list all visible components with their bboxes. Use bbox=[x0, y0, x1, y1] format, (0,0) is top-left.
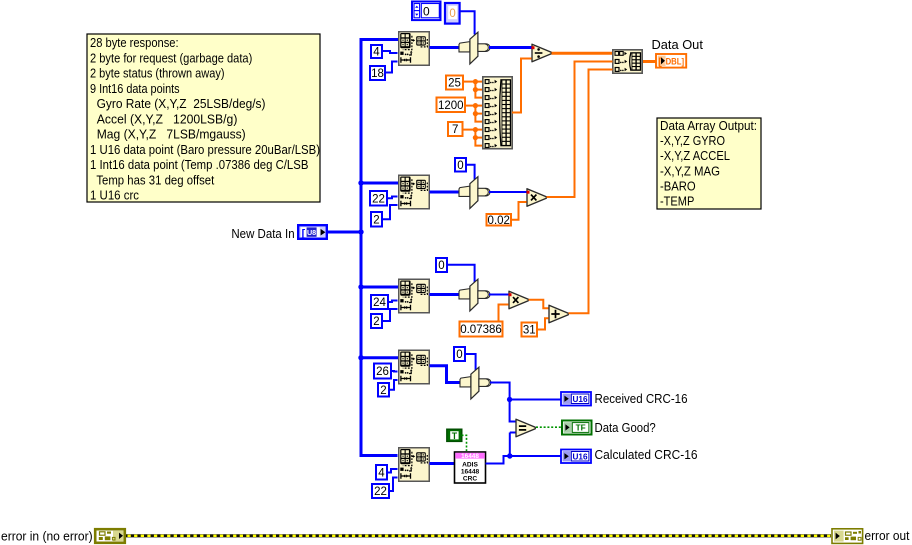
junction 7 a bbox=[473, 127, 478, 132]
junction received crc bbox=[507, 397, 512, 402]
wire add to buildarray3 row3 bbox=[569, 70, 613, 314]
svg-text:U16: U16 bbox=[572, 395, 587, 404]
comment box: Data Array Output list bbox=[657, 118, 761, 209]
svg-text:Calculated CRC-16: Calculated CRC-16 bbox=[595, 447, 698, 462]
wire const25 to branch bbox=[464, 81, 475, 83]
wire trunk to array subset 1 bbox=[360, 38, 399, 41]
constant 0 (row3 type) bbox=[436, 258, 447, 272]
wire calculated crc to equal bbox=[509, 433, 511, 457]
constant 2 (row4 length) bbox=[378, 383, 389, 397]
svg-text:0: 0 bbox=[449, 8, 455, 20]
svg-text:Data Good?: Data Good? bbox=[595, 420, 656, 435]
wire branch1200 row5 bbox=[475, 113, 482, 115]
junction 7 b bbox=[473, 135, 478, 140]
wire trunk to array subset 4 bbox=[361, 356, 398, 359]
constant 0 (row2 type) bbox=[455, 158, 466, 172]
svg-text:7: 7 bbox=[452, 124, 458, 136]
svg-text:T: T bbox=[452, 431, 458, 441]
control terminal error in cluster bbox=[95, 529, 125, 543]
svg-text:9 Int16 data points: 9 Int16 data points bbox=[90, 81, 180, 96]
svg-text:28 byte response:: 28 byte response: bbox=[90, 35, 179, 50]
control terminal New Data In [U8] bbox=[298, 225, 327, 239]
divide node (row1 scale) bbox=[532, 44, 552, 62]
wire typecast4 to equal top bbox=[490, 383, 516, 422]
wire const0.02 to multiply2 bbox=[512, 202, 527, 220]
wire terminal0 to typecast1 type input bbox=[461, 11, 475, 34]
svg-text:Received CRC-16: Received CRC-16 bbox=[595, 391, 688, 406]
wire branch1200 vertical bbox=[475, 106, 482, 122]
wire const22 to length input row5 bbox=[389, 478, 398, 492]
svg-text:CRC: CRC bbox=[463, 476, 478, 483]
svg-text:Accel (X,Y,Z 1200LSB/g): Accel (X,Y,Z 1200LSB/g) bbox=[90, 111, 237, 126]
wire multiply2 to buildarray3 row2 bbox=[547, 62, 613, 198]
svg-text:0: 0 bbox=[457, 160, 463, 172]
svg-text:2 byte status (thrown away): 2 byte status (thrown away) bbox=[90, 66, 225, 81]
constant 31 (temp offset) bbox=[522, 323, 538, 337]
wire typecast2 to multiply2 bbox=[489, 191, 527, 193]
constant 2 (row2 length) bbox=[371, 212, 382, 227]
array subset node 3 bbox=[399, 279, 430, 313]
junction calculated crc bbox=[507, 453, 512, 458]
constant 4 (row1 index) bbox=[371, 45, 382, 59]
wire branch7 vertical bbox=[475, 130, 482, 146]
wire New Data In to trunk bbox=[328, 231, 361, 234]
wire const7 to branch bbox=[464, 129, 476, 131]
boolean constant True bbox=[447, 429, 462, 441]
wire const1200 to branch bbox=[466, 105, 475, 107]
svg-text:0: 0 bbox=[438, 260, 444, 272]
indicator Data Out [DBL array] bbox=[656, 54, 686, 68]
wire const4 to index input row5 bbox=[387, 469, 398, 473]
svg-text:18: 18 bbox=[371, 68, 384, 80]
svg-text:4: 4 bbox=[373, 47, 380, 59]
wire const0 to typecast3 type bbox=[446, 265, 475, 283]
type cast U16 (row4 received crc) bbox=[460, 367, 491, 399]
wire multiply3 to add bbox=[529, 300, 549, 309]
wire const18 to length input bbox=[385, 62, 398, 73]
svg-text:1 U16 data point (Baro pressur: 1 U16 data point (Baro pressure 20uBar/L… bbox=[90, 142, 320, 157]
svg-text:DBL]: DBL] bbox=[666, 57, 685, 67]
svg-text:TF: TF bbox=[576, 424, 586, 433]
wire arraysubset4 to typecast4 bbox=[430, 366, 461, 383]
svg-text:Data Out: Data Out bbox=[652, 37, 704, 52]
indicator terminal error out cluster bbox=[832, 529, 863, 544]
wire arraysubset5 to ADIS bbox=[430, 462, 455, 465]
numeric control (index 0) bbox=[412, 2, 441, 21]
constant 0.07386 (temp scale) bbox=[460, 322, 503, 337]
indicator Data Good? [TF] bbox=[562, 421, 592, 435]
svg-text:4: 4 bbox=[378, 467, 385, 479]
svg-text:error out: error out bbox=[865, 528, 910, 543]
error wire base bbox=[126, 534, 831, 537]
array subset node 2 bbox=[399, 175, 430, 209]
comment box: 28 byte response description bbox=[87, 34, 320, 203]
junction row3 bbox=[358, 284, 363, 289]
terminal constant 0 (type input) bbox=[445, 3, 460, 24]
svg-text:25: 25 bbox=[448, 78, 461, 90]
svg-text:-X,Y,Z MAG: -X,Y,Z MAG bbox=[660, 163, 720, 178]
constant 22 (row2 index) bbox=[370, 191, 387, 206]
svg-text:Mag (X,Y,Z 7LSB/mgauss): Mag (X,Y,Z 7LSB/mgauss) bbox=[90, 127, 246, 142]
svg-text:U8: U8 bbox=[307, 228, 316, 237]
svg-text:U16: U16 bbox=[572, 452, 587, 461]
wire const2 to length input row3 bbox=[383, 309, 398, 321]
wire arraysubset2 to typecast2 bbox=[430, 191, 460, 194]
junction row2 bbox=[358, 180, 363, 185]
svg-text:-TEMP: -TEMP bbox=[660, 194, 694, 209]
wire const2 to length input row4 bbox=[389, 380, 398, 390]
svg-text:16448: 16448 bbox=[461, 469, 480, 476]
constant 2 (row3 length) bbox=[371, 314, 382, 328]
constant 0.02 (baro scale) bbox=[487, 214, 512, 227]
svg-text:0: 0 bbox=[423, 5, 430, 19]
error wire yellow dashes bbox=[128, 535, 832, 537]
svg-text:0.02: 0.02 bbox=[488, 215, 510, 227]
constant 7 (mag LSB) bbox=[448, 122, 463, 136]
svg-text:ADIS: ADIS bbox=[462, 462, 478, 469]
array subset node 4 bbox=[399, 350, 430, 384]
wire const26 to index input row4 bbox=[392, 370, 398, 373]
junction row4 bbox=[358, 355, 363, 360]
indicator Calculated CRC-16 [U16] bbox=[561, 450, 591, 464]
constant 25 (gyro LSB) bbox=[446, 76, 463, 90]
svg-text:error in (no error): error in (no error) bbox=[1, 529, 93, 544]
wire main data trunk vertical bbox=[361, 39, 398, 456]
wire const4 to index input bbox=[382, 51, 398, 53]
array subset node 1 bbox=[399, 32, 430, 66]
build array node (output assembly) bbox=[613, 50, 642, 73]
svg-text:31: 31 bbox=[523, 325, 536, 337]
constant 26 (row4 index) bbox=[374, 364, 391, 379]
wire branch7 row8 bbox=[475, 137, 482, 139]
multiply node (row3 temp scale) bbox=[509, 291, 529, 309]
wire const31 to add bbox=[538, 318, 549, 329]
junction 1200 b bbox=[473, 111, 478, 116]
svg-text:1 U16 crc: 1 U16 crc bbox=[90, 188, 139, 203]
svg-text:2: 2 bbox=[373, 214, 379, 226]
svg-text:2: 2 bbox=[373, 316, 379, 328]
constant 4 (row5 index) bbox=[376, 465, 387, 480]
wire typecast3 to multiply3 bbox=[489, 294, 509, 296]
svg-text:1 Int16 data point (Temp .0738: 1 Int16 data point (Temp .07386 deg C/LS… bbox=[90, 157, 308, 172]
constant 22 (row5 length) bbox=[372, 484, 389, 498]
svg-text:Gyro Rate (X,Y,Z 25LSB/deg/s): Gyro Rate (X,Y,Z 25LSB/deg/s) bbox=[90, 96, 266, 111]
svg-text:Data Array Output:: Data Array Output: bbox=[660, 118, 757, 133]
junction New Data In bbox=[358, 229, 363, 234]
svg-text:1200: 1200 bbox=[438, 100, 464, 112]
wire const22 to index input bbox=[388, 197, 398, 199]
wire arraysubset3 to typecast3 bbox=[430, 293, 460, 296]
wire ADIS to Calculated CRC-16 bbox=[486, 456, 562, 464]
build array node (9 divisors) bbox=[483, 77, 512, 149]
wire buildarray9 to divide bbox=[512, 59, 532, 113]
svg-text:0.07386: 0.07386 bbox=[460, 324, 502, 336]
svg-text:New Data In: New Data In bbox=[231, 226, 294, 241]
type cast I16 (row3 temp) bbox=[459, 279, 490, 311]
wire buildarray3 to Data Out bbox=[643, 60, 656, 63]
type cast U16 (row2 baro) bbox=[459, 177, 490, 209]
svg-text:0: 0 bbox=[456, 349, 462, 361]
wire branch25 row1 bbox=[475, 81, 482, 83]
wire typecast1 to divide bbox=[489, 46, 532, 49]
wire arraysubset1 to typecast1 bbox=[430, 46, 460, 49]
junction 25 a bbox=[473, 79, 478, 84]
svg-text:-X,Y,Z GYRO: -X,Y,Z GYRO bbox=[660, 133, 725, 148]
svg-text:Temp has 31 deg offset: Temp has 31 deg offset bbox=[90, 172, 215, 187]
svg-text:26: 26 bbox=[376, 366, 389, 378]
wire branch1200 row4 bbox=[475, 105, 482, 107]
svg-text:-BARO: -BARO bbox=[660, 178, 696, 193]
svg-text:-X,Y,Z ACCEL: -X,Y,Z ACCEL bbox=[660, 148, 730, 163]
wire const0 to typecast2 type bbox=[466, 165, 475, 180]
svg-text:16448: 16448 bbox=[461, 453, 479, 460]
svg-text:2 byte for request (garbage da: 2 byte for request (garbage data) bbox=[90, 50, 252, 65]
constant 24 (row3 index) bbox=[371, 295, 388, 309]
wire trunk to array subset 2 bbox=[361, 182, 398, 185]
multiply node (row2 baro scale) bbox=[527, 189, 547, 207]
svg-text:[: [ bbox=[302, 227, 306, 239]
constant 1200 (accel LSB) bbox=[437, 98, 466, 113]
svg-text:22: 22 bbox=[374, 486, 387, 498]
array subset node 5 bbox=[399, 448, 430, 482]
wire equal to Data Good? bbox=[536, 426, 561, 428]
wire const24 to index input row3 bbox=[389, 301, 398, 303]
wire branch25 vertical bbox=[475, 82, 482, 98]
svg-text:2: 2 bbox=[380, 385, 386, 397]
constant 0 (row4 type) bbox=[454, 347, 465, 361]
wire const0.07386 to multiply3 bbox=[499, 305, 509, 321]
constant 18 (row1 length) bbox=[370, 66, 385, 80]
wire branch7 row7 bbox=[475, 129, 482, 131]
svg-text:24: 24 bbox=[373, 297, 386, 309]
wire divide to buildarray3 row1 bbox=[552, 52, 613, 55]
equal node bbox=[516, 419, 535, 437]
junction 1200 a bbox=[473, 103, 478, 108]
svg-text:22: 22 bbox=[372, 193, 385, 205]
wire trunk to array subset 3 bbox=[361, 286, 398, 289]
subVI ADIS 16448 CRC bbox=[455, 452, 486, 483]
indicator Received CRC-16 [U16] bbox=[561, 392, 591, 406]
junction 25 b bbox=[473, 87, 478, 92]
wire to Received CRC-16 bbox=[510, 399, 562, 401]
wire T to ADIS crc node bbox=[462, 435, 467, 451]
type cast U16 array (row1) bbox=[459, 32, 490, 64]
wire const0 to typecast4 type bbox=[465, 354, 476, 370]
add node (temp offset) bbox=[549, 305, 568, 323]
wire branch25 row2 bbox=[475, 89, 482, 91]
wire const2 to length input row2 bbox=[382, 205, 398, 219]
wire calculated to equal bottom bbox=[510, 432, 516, 434]
